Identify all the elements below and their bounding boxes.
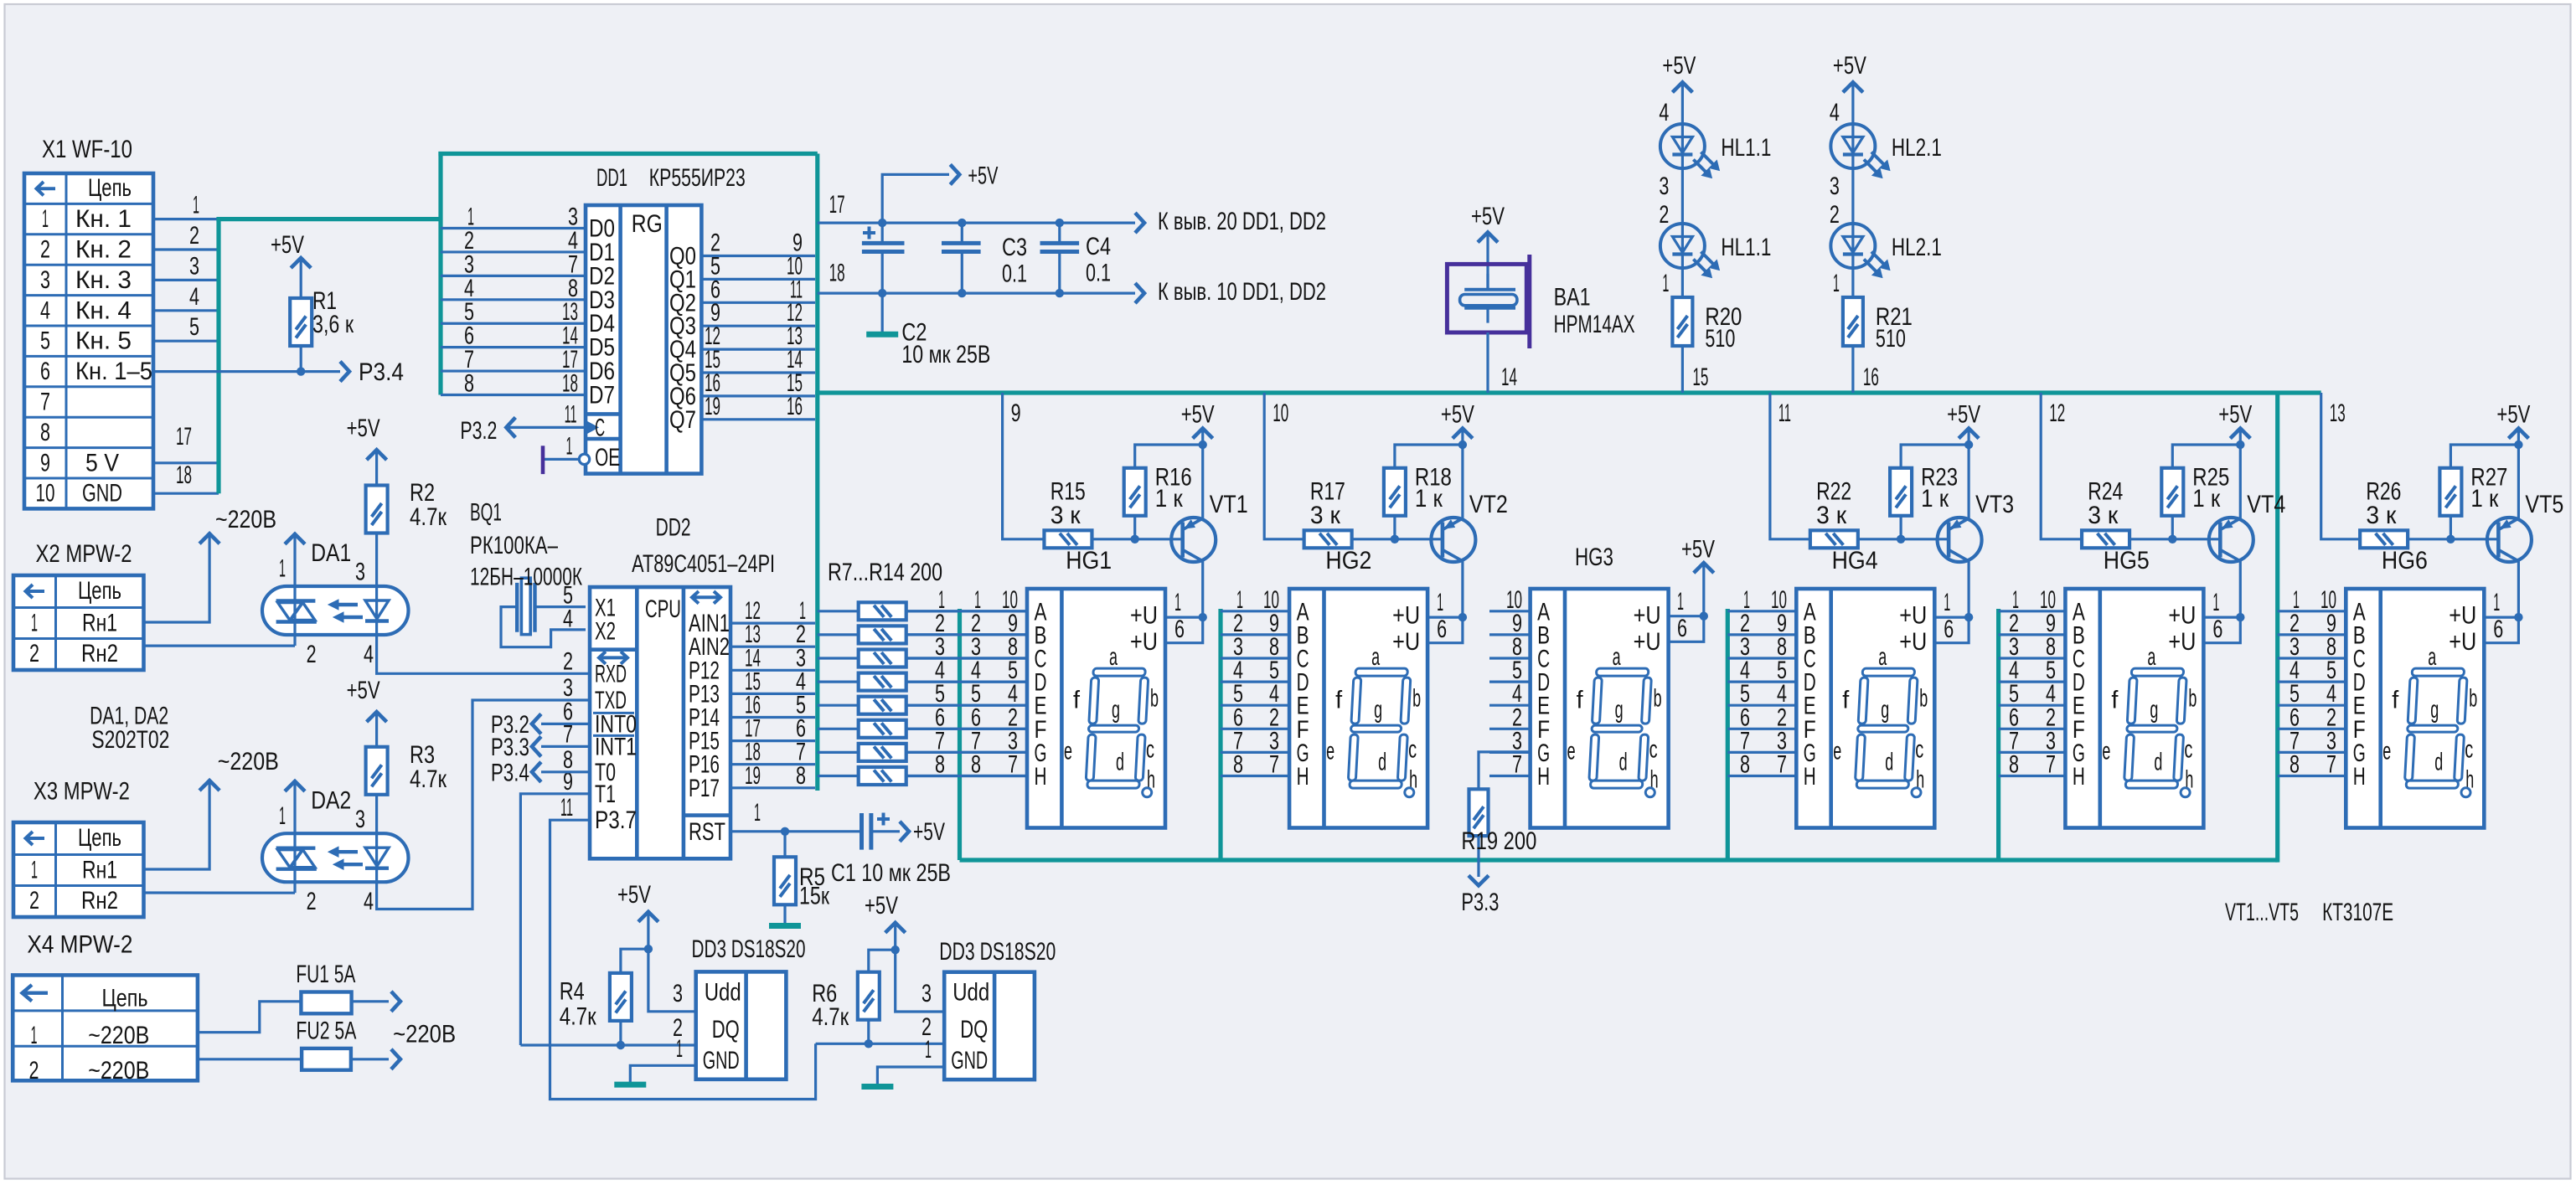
svg-text:1: 1	[1437, 589, 1443, 616]
svg-text:C: C	[595, 414, 605, 441]
wire HG3 pin 7	[1489, 751, 1531, 779]
connector X3 label	[34, 777, 130, 805]
svg-text:a: a	[1878, 643, 1887, 671]
svg-text:RG: RG	[632, 210, 663, 238]
label FU2	[296, 1018, 356, 1045]
label C2	[901, 319, 990, 369]
svg-text:d: d	[1378, 749, 1386, 776]
wire DA2 pin1 ~220В arrow	[279, 781, 305, 833]
svg-text:2: 2	[189, 222, 199, 250]
svg-text:Цепь: Цепь	[102, 984, 148, 1012]
wire X4 pin1 to FU1	[198, 1002, 303, 1033]
svg-text:DA2: DA2	[311, 787, 351, 815]
svg-text:4.7к: 4.7к	[812, 1003, 849, 1031]
net К выв. 10	[1158, 278, 1326, 306]
wire HG3 pin 3	[1489, 727, 1531, 755]
wire 5V pin17	[153, 423, 219, 463]
svg-text:e: e	[2382, 737, 2391, 765]
wire HG4 pin 7	[1727, 751, 1796, 779]
svg-text:+5V: +5V	[1181, 401, 1215, 429]
label HG2	[1325, 547, 1371, 574]
svg-text:8: 8	[1740, 751, 1750, 779]
chip DD3 DS18S20 #2 label	[939, 938, 1056, 966]
pin name DD2 X2	[595, 618, 616, 646]
pin name DD2 RXD	[595, 660, 627, 688]
svg-text:e: e	[1567, 737, 1576, 765]
bus riser HG4	[1726, 609, 1730, 860]
svg-text:e: e	[1326, 737, 1334, 765]
pin name DD2 T1	[595, 781, 616, 808]
transistor VT1	[1171, 445, 1216, 617]
power +5V R23	[1947, 401, 1980, 450]
wire Кн.5 to bus	[153, 313, 219, 341]
svg-text:18: 18	[176, 461, 192, 489]
svg-text:VT2: VT2	[1469, 491, 1508, 518]
svg-text:4.7к: 4.7к	[560, 1003, 597, 1031]
svg-text:P3.4: P3.4	[359, 358, 404, 386]
label HG6	[2382, 547, 2428, 574]
wire DA1 pin4 to DD2 RXD	[364, 635, 588, 673]
wire R to base	[2408, 535, 2498, 544]
svg-text:f: f	[1073, 687, 1081, 714]
svg-text:CPU: CPU	[645, 595, 681, 623]
svg-text:7: 7	[2046, 751, 2056, 779]
wire HG1 pin 9	[906, 610, 1027, 637]
pin name DD2 AIN1	[689, 610, 730, 637]
svg-text:1: 1	[42, 205, 49, 233]
svg-text:8: 8	[935, 751, 945, 779]
pin name DD1 Q5	[669, 359, 696, 387]
svg-text:+5V: +5V	[1681, 536, 1715, 564]
resistor R9	[818, 650, 1027, 667]
svg-text:16: 16	[1863, 363, 1879, 391]
svg-text:c: c	[2465, 736, 2473, 764]
resistor R26 (3k)	[2360, 478, 2408, 549]
wire VT3 collector to +U	[1934, 589, 1973, 643]
svg-text:HL2.1: HL2.1	[1892, 234, 1942, 261]
wire DD1 D6	[441, 346, 586, 374]
label DA2	[311, 787, 351, 815]
svg-text:RST: RST	[689, 818, 725, 846]
label HL1.1 upper	[1721, 134, 1771, 162]
svg-text:f: f	[1577, 687, 1584, 714]
pin number DD2 9	[563, 768, 573, 796]
svg-text:2: 2	[29, 1057, 39, 1085]
wire HG6 pin 4	[2278, 680, 2346, 708]
wire HG6 pin 3	[2278, 727, 2346, 755]
svg-text:+U: +U	[1634, 602, 1661, 630]
transistor VT4	[2209, 445, 2253, 617]
svg-text:Udd: Udd	[952, 979, 989, 1007]
svg-text:3: 3	[355, 559, 365, 586]
LED HL1.1.1 lower	[1660, 224, 1719, 278]
wire DD2 AIN2 to bus	[730, 621, 815, 648]
wire bus line 13 to R	[2321, 393, 2360, 539]
svg-text:1 к: 1 к	[1415, 485, 1443, 513]
svg-text:Цепь: Цепь	[88, 174, 132, 202]
svg-text:1 к: 1 к	[2470, 485, 2499, 513]
wire HG3 pin 4	[1489, 680, 1531, 708]
connector X1 table	[24, 173, 153, 508]
resistor R22 (3k)	[1810, 478, 1858, 549]
wire GND pin18	[153, 461, 219, 493]
label C3	[1002, 234, 1027, 288]
svg-text:C1 10 мк 25В: C1 10 мк 25В	[831, 859, 951, 887]
svg-text:10 мк 25В: 10 мк 25В	[901, 341, 990, 368]
svg-text:FU2 5A: FU2 5A	[296, 1018, 356, 1045]
wire DD1 Q2	[701, 276, 815, 303]
label VT1...VT5 type	[2225, 899, 2393, 926]
connector X2 label	[36, 540, 132, 568]
pin name DD1 Q3	[669, 312, 696, 340]
bidir arrow left col	[599, 652, 627, 664]
wire X3 Rн2 to DA2 pin2	[144, 891, 296, 894]
connector X2 table	[13, 575, 144, 670]
svg-text:Udd: Udd	[705, 978, 741, 1006]
logic level mark OE	[541, 446, 545, 474]
svg-text:+U: +U	[1392, 628, 1420, 656]
wire DA2 pin2	[295, 882, 317, 915]
connector X3 table	[13, 822, 144, 917]
svg-text:b: b	[1150, 685, 1159, 713]
svg-text:P3.2: P3.2	[460, 417, 497, 445]
resistor R3	[355, 741, 447, 833]
net +5V (C1)	[913, 818, 945, 846]
capacitor C1	[862, 813, 910, 850]
svg-text:+5V: +5V	[968, 162, 998, 190]
svg-text:HL1.1: HL1.1	[1721, 134, 1771, 162]
svg-text:d: d	[1885, 749, 1893, 776]
svg-text:8: 8	[1233, 751, 1243, 779]
svg-text:0.1: 0.1	[1086, 260, 1111, 287]
label R19	[1461, 827, 1536, 855]
svg-text:Rн2: Rн2	[81, 887, 118, 915]
resistor R15 (3k)	[1044, 478, 1092, 549]
wire Кн.2 to bus	[153, 222, 219, 250]
resistor R25 (1k)	[2161, 445, 2240, 539]
svg-text:HG5: HG5	[2104, 547, 2150, 574]
svg-text:+5V: +5V	[1662, 52, 1696, 80]
wire HG6 pin 7	[2278, 751, 2346, 779]
svg-text:VT1...VT5: VT1...VT5	[2225, 899, 2299, 926]
svg-text:HG2: HG2	[1325, 547, 1371, 574]
svg-text:8: 8	[796, 762, 806, 790]
transistor VT3	[1938, 445, 1982, 617]
label DA1 DA2 type	[90, 702, 169, 754]
connector X4 table	[13, 975, 198, 1085]
svg-text:Кн. 1–5: Кн. 1–5	[75, 358, 152, 385]
net ~220В (X2)	[215, 506, 276, 533]
label VT2	[1469, 491, 1508, 518]
power +5V R25	[2218, 401, 2252, 450]
svg-text:3,6 к: 3,6 к	[312, 311, 354, 338]
wire VT5 collector to +U	[2484, 589, 2522, 643]
wire HG3 pin 8	[1489, 633, 1531, 661]
wire HG3 pin 10	[1489, 586, 1531, 614]
svg-text:d: d	[2154, 749, 2162, 776]
wire BA1 to bus line 14	[1488, 332, 1517, 393]
wire DD2 P16 to bus	[730, 739, 815, 766]
svg-text:Rн1: Rн1	[82, 610, 117, 637]
wire HG3 G to R19	[1479, 752, 1531, 789]
svg-text:H: H	[1537, 763, 1550, 791]
svg-text:+5V: +5V	[1441, 401, 1474, 429]
bus riser HG1	[958, 609, 962, 860]
pin name DD1 D3	[589, 286, 615, 314]
wire DD1 Q3	[701, 299, 815, 327]
svg-text:0.1: 0.1	[1002, 260, 1027, 288]
resistor R10	[818, 673, 1027, 691]
svg-text:D7: D7	[589, 382, 615, 410]
svg-text:P3.7: P3.7	[595, 806, 637, 834]
bus DD1 right harness	[815, 154, 819, 791]
label BA1	[1554, 284, 1635, 338]
svg-text:DQ: DQ	[712, 1016, 740, 1043]
svg-text:5 V: 5 V	[85, 449, 119, 477]
LED HL1.1.1 upper	[1660, 124, 1719, 178]
wire HG1 pin 7	[906, 751, 1027, 779]
label HG4	[1832, 547, 1878, 574]
svg-text:1: 1	[1174, 589, 1181, 616]
resistor R2	[355, 479, 447, 586]
svg-text:3 к: 3 к	[1051, 502, 1082, 529]
svg-text:Rн1: Rн1	[82, 857, 117, 884]
wire HG5 pin 10	[1999, 586, 2066, 614]
ground R5	[769, 923, 801, 929]
svg-text:+5V: +5V	[347, 415, 380, 442]
svg-text:4: 4	[364, 888, 374, 915]
wire R to base	[1092, 535, 1183, 544]
wire HG6 pin 5	[2278, 657, 2346, 684]
svg-text:3: 3	[1830, 173, 1840, 200]
wire DD2 P14 to bus	[730, 692, 815, 719]
svg-text:8: 8	[464, 370, 474, 398]
svg-text:КТ3107Е: КТ3107Е	[2322, 899, 2393, 926]
net ~220В (X3)	[218, 748, 279, 775]
resistor R8	[818, 626, 1027, 643]
power +5V BA1	[1471, 203, 1505, 290]
svg-text:1: 1	[31, 857, 38, 884]
bus riser HG2	[1218, 609, 1222, 860]
bus riser HG6	[2275, 393, 2279, 863]
resistor R16 (1k)	[1124, 445, 1203, 539]
svg-text:3: 3	[355, 806, 365, 833]
svg-text:T1: T1	[595, 781, 616, 808]
resistor R5	[774, 832, 830, 924]
svg-text:HG3: HG3	[1575, 544, 1613, 571]
svg-text:К выв. 20 DD1, DD2: К выв. 20 DD1, DD2	[1158, 208, 1326, 235]
pin name DD2 P16	[689, 751, 720, 779]
resistor R20	[1672, 297, 1692, 346]
svg-text:+U: +U	[1130, 602, 1158, 630]
wire DD2 P13 to bus	[730, 667, 815, 695]
bus bottom horizontal	[960, 858, 2278, 862]
svg-text:X2: X2	[595, 618, 616, 646]
svg-text:8: 8	[2289, 751, 2300, 779]
svg-text:6: 6	[1944, 616, 1954, 643]
label HG5	[2104, 547, 2150, 574]
pin name DD1 Q0	[669, 243, 696, 270]
svg-text:+U: +U	[1130, 628, 1158, 656]
resistor R11	[818, 697, 1027, 714]
wire HG6 pin 10	[2278, 586, 2346, 614]
label BQ1	[470, 499, 582, 591]
display HG4	[1796, 589, 1934, 828]
svg-text:1 к: 1 к	[1155, 485, 1184, 513]
svg-text:4: 4	[563, 605, 573, 633]
wire R to base	[1352, 535, 1443, 544]
svg-text:10: 10	[1273, 399, 1288, 427]
svg-text:6: 6	[1677, 615, 1687, 642]
pin name DD1 D2	[589, 262, 615, 290]
svg-text:10: 10	[36, 480, 55, 507]
svg-text:DD2: DD2	[656, 513, 691, 541]
svg-text:Кн. 1: Кн. 1	[75, 205, 132, 233]
label VT3	[1975, 491, 2014, 518]
svg-text:510: 510	[1705, 325, 1735, 353]
label HL2.1 upper	[1892, 134, 1942, 162]
optocoupler DA2	[262, 833, 409, 882]
label VT4	[2247, 491, 2285, 518]
wire HG6 pin 2	[2278, 703, 2346, 731]
svg-text:d: d	[1619, 749, 1628, 776]
svg-text:BQ1: BQ1	[470, 499, 502, 527]
LED HL2.1.1 upper	[1830, 124, 1890, 178]
wire HG5 pin 9	[1999, 610, 2066, 637]
svg-text:2: 2	[40, 236, 50, 264]
pin name DD2 P14	[689, 704, 720, 732]
svg-text:HPM14AX: HPM14AX	[1554, 311, 1635, 338]
svg-text:15: 15	[1692, 363, 1708, 391]
svg-text:C3: C3	[1002, 234, 1027, 261]
wire DD2 T1 to DS18S20-1 DQ	[520, 794, 590, 1045]
svg-text:+5V: +5V	[2218, 401, 2252, 429]
svg-text:VT4: VT4	[2247, 491, 2285, 518]
pin number DD2 7	[563, 720, 573, 748]
svg-text:P3.4: P3.4	[491, 759, 529, 786]
svg-text:3: 3	[1659, 173, 1669, 200]
svg-text:Кн. 4: Кн. 4	[75, 296, 132, 324]
bus riser HG5	[1996, 609, 2000, 860]
svg-text:C4: C4	[1086, 233, 1111, 260]
buzzer BA1 HPM14AX	[1447, 255, 1529, 348]
resistor R6	[812, 950, 895, 1043]
pin name DD2 T0	[595, 759, 616, 786]
svg-text:9: 9	[40, 449, 50, 477]
svg-text:+U: +U	[2449, 628, 2476, 656]
wire sensor1 Udd	[648, 949, 696, 1012]
svg-text:2: 2	[307, 888, 317, 915]
svg-text:6: 6	[2493, 616, 2503, 643]
svg-text:g: g	[1112, 696, 1120, 724]
svg-text:+5V: +5V	[347, 677, 380, 704]
power +5V sensor2	[865, 892, 906, 955]
wire Кн.3 to bus	[153, 252, 219, 280]
resistor R24 (3k)	[2082, 478, 2129, 549]
wire sensor2 GND	[877, 1036, 944, 1084]
net К выв. 20	[1158, 208, 1326, 235]
wire DD1 D7	[441, 370, 586, 398]
power +5V R16	[1181, 401, 1215, 450]
wire HG1 pin 2	[906, 703, 1027, 731]
svg-text:7: 7	[1269, 751, 1279, 779]
wire HG4 pin 8	[1727, 633, 1796, 661]
svg-text:b: b	[1654, 685, 1662, 713]
net ~220В (FU)	[393, 1021, 456, 1048]
svg-text:c: c	[2184, 736, 2192, 764]
label R21	[1876, 303, 1913, 353]
svg-text:1: 1	[676, 1035, 683, 1063]
svg-text:3: 3	[40, 266, 50, 294]
label HL2.1 lower	[1892, 234, 1942, 261]
wire HG6 pin 9	[2278, 610, 2346, 637]
pin number DD2 2	[563, 647, 573, 675]
wire LED string HL1.1	[1659, 82, 1682, 297]
svg-text:19: 19	[705, 393, 720, 420]
wire bus line 12 to R	[2041, 393, 2082, 539]
wire R to base	[1858, 535, 1949, 544]
svg-text:8: 8	[40, 419, 50, 446]
resistor R18 (1k)	[1384, 445, 1463, 539]
node P3.3 arrow down	[1469, 875, 1489, 885]
svg-text:HG6: HG6	[2382, 547, 2428, 574]
pin name DD1 D7	[589, 382, 615, 410]
svg-text:a: a	[1613, 643, 1621, 671]
svg-text:7: 7	[1008, 751, 1018, 779]
capacitor C3	[942, 219, 981, 297]
svg-text:15к: 15к	[799, 883, 830, 910]
resistor R21	[1843, 297, 1863, 346]
svg-text:6: 6	[1174, 616, 1185, 643]
svg-text:1 к: 1 к	[2192, 485, 2221, 513]
wire DD2 INT0 P3.2	[532, 714, 590, 734]
wire R to base	[2129, 535, 2220, 544]
svg-text:DD1: DD1	[596, 164, 627, 192]
svg-text:g: g	[1881, 696, 1889, 724]
node P3.3 (DD2)	[491, 734, 529, 761]
pin name DD1 D1	[589, 239, 615, 266]
svg-text:c: c	[1146, 736, 1154, 764]
power +5V HL1.1	[1662, 52, 1696, 92]
svg-text:Цепь: Цепь	[78, 577, 121, 605]
wire DD2 P15 to bus	[730, 715, 815, 743]
wire DA1 pin2	[295, 635, 317, 668]
svg-text:2: 2	[307, 641, 317, 668]
bus DD1 left harness	[438, 152, 817, 395]
svg-text:3 к: 3 к	[2088, 502, 2119, 529]
svg-text:1: 1	[2212, 589, 2219, 616]
pin number DD2 8	[563, 746, 573, 774]
wire Кн.1 to bus	[153, 192, 219, 219]
resistor R1	[290, 287, 354, 346]
svg-text:1: 1	[1662, 270, 1669, 297]
svg-text:GND: GND	[951, 1047, 988, 1074]
bus main horizontal	[815, 390, 2321, 394]
svg-text:a: a	[2147, 643, 2155, 671]
chip DD1 label	[596, 164, 746, 192]
svg-text:14: 14	[1501, 363, 1517, 391]
wire HG2 pin 4	[1221, 680, 1289, 708]
svg-text:~220В: ~220В	[215, 506, 276, 533]
svg-text:P17: P17	[689, 775, 720, 802]
resistor R17 (3k)	[1304, 478, 1352, 549]
resistor R23 (1k)	[1890, 445, 1969, 539]
svg-text:H: H	[2353, 763, 2366, 791]
svg-text:18: 18	[562, 370, 578, 398]
wire HG2 pin 2	[1221, 703, 1289, 731]
pin name DD1 D0	[589, 215, 615, 243]
svg-text:16: 16	[787, 393, 803, 420]
